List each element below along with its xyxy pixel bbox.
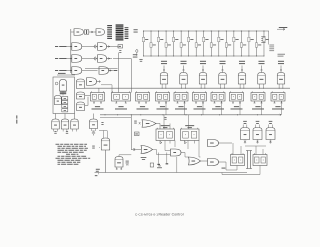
svg-text:C-CS-M703-0-1: C-CS-M703-0-1 (135, 212, 158, 216)
svg-text:SW: SW (126, 164, 129, 166)
svg-text:Reader Control: Reader Control (159, 213, 184, 217)
